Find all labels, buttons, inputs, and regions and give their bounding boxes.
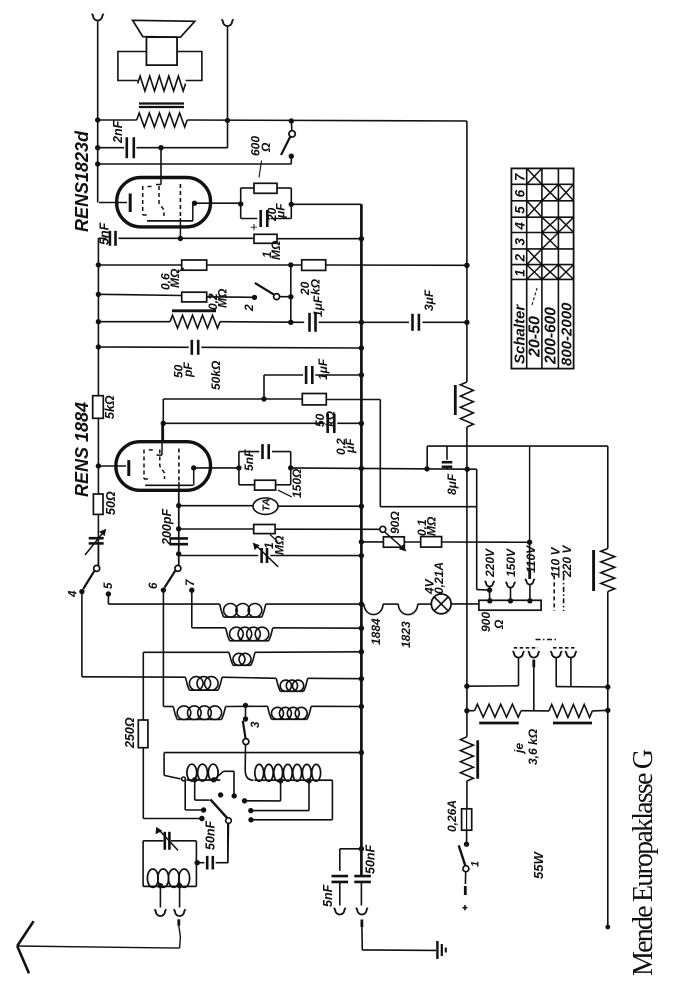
svg-text:900: 900 <box>479 612 493 632</box>
svg-text:8μF: 8μF <box>445 473 459 495</box>
svg-text:μF: μF <box>274 203 288 219</box>
svg-text:110V: 110V <box>524 545 538 573</box>
svg-text:kΩ: kΩ <box>309 278 323 295</box>
svg-text:MΩ: MΩ <box>216 288 230 308</box>
svg-text:1884: 1884 <box>369 618 383 645</box>
svg-text:2: 2 <box>242 304 256 312</box>
svg-text:5: 5 <box>103 582 115 589</box>
svg-text:kΩ: kΩ <box>324 410 338 427</box>
svg-text:2nF: 2nF <box>111 120 125 144</box>
svg-text:50kΩ: 50kΩ <box>209 360 223 390</box>
svg-text:μF: μF <box>343 438 357 454</box>
svg-text:220V: 220V <box>483 548 497 578</box>
svg-text:je: je <box>512 743 526 755</box>
svg-text:1μF: 1μF <box>311 295 325 317</box>
svg-text:3,6 kΩ: 3,6 kΩ <box>526 728 540 765</box>
svg-text:50Ω: 50Ω <box>104 491 118 515</box>
svg-text:0,21A: 0,21A <box>432 562 446 594</box>
svg-text:5nF: 5nF <box>98 222 112 245</box>
svg-text:TA: TA <box>261 498 273 511</box>
svg-text:3μF: 3μF <box>422 289 436 311</box>
svg-text:1: 1 <box>513 269 528 277</box>
svg-text:5nF: 5nF <box>242 449 256 471</box>
svg-text:150V: 150V <box>504 548 518 577</box>
svg-text:1μF: 1μF <box>316 358 330 380</box>
svg-text:3: 3 <box>513 238 528 246</box>
svg-text:20-50: 20-50 <box>527 316 544 358</box>
svg-text:150Ω: 150Ω <box>290 468 304 498</box>
svg-text:90Ω: 90Ω <box>388 511 402 534</box>
svg-text:5: 5 <box>513 206 528 214</box>
svg-text:pF: pF <box>181 362 195 378</box>
svg-text:800-2000: 800-2000 <box>559 302 576 366</box>
svg-text:RENS1823d: RENS1823d <box>72 130 92 232</box>
svg-text:4: 4 <box>68 590 80 598</box>
svg-text:3: 3 <box>250 721 262 728</box>
svg-text:1: 1 <box>470 861 482 867</box>
svg-text:50nF: 50nF <box>204 820 218 850</box>
svg-text:RENS 1884: RENS 1884 <box>72 402 92 497</box>
svg-text:Ω: Ω <box>492 619 506 630</box>
svg-text:Mende Europaklasse G: Mende Europaklasse G <box>628 749 659 976</box>
svg-text:Ω: Ω <box>259 142 273 153</box>
svg-text:4: 4 <box>513 222 528 231</box>
svg-text:5nF: 5nF <box>321 884 335 907</box>
svg-text:200pF: 200pF <box>160 509 174 546</box>
svg-text:0,26A: 0,26A <box>445 800 459 832</box>
svg-text:200-600: 200-600 <box>543 307 560 365</box>
svg-text:6: 6 <box>513 189 528 197</box>
svg-text:1823: 1823 <box>399 621 413 648</box>
svg-text:MΩ: MΩ <box>269 240 283 260</box>
svg-text:220 V: 220 V <box>560 545 574 578</box>
svg-text:2: 2 <box>513 254 528 263</box>
svg-text:250Ω: 250Ω <box>123 717 137 749</box>
svg-text:MΩ: MΩ <box>425 516 439 536</box>
svg-text:7: 7 <box>185 579 197 586</box>
svg-text:5kΩ: 5kΩ <box>103 395 117 419</box>
svg-text:+: + <box>246 223 261 231</box>
svg-text:55W: 55W <box>531 851 546 879</box>
svg-text:6: 6 <box>148 582 160 589</box>
svg-text:50nF: 50nF <box>364 844 378 874</box>
svg-text:MΩ: MΩ <box>273 535 287 555</box>
